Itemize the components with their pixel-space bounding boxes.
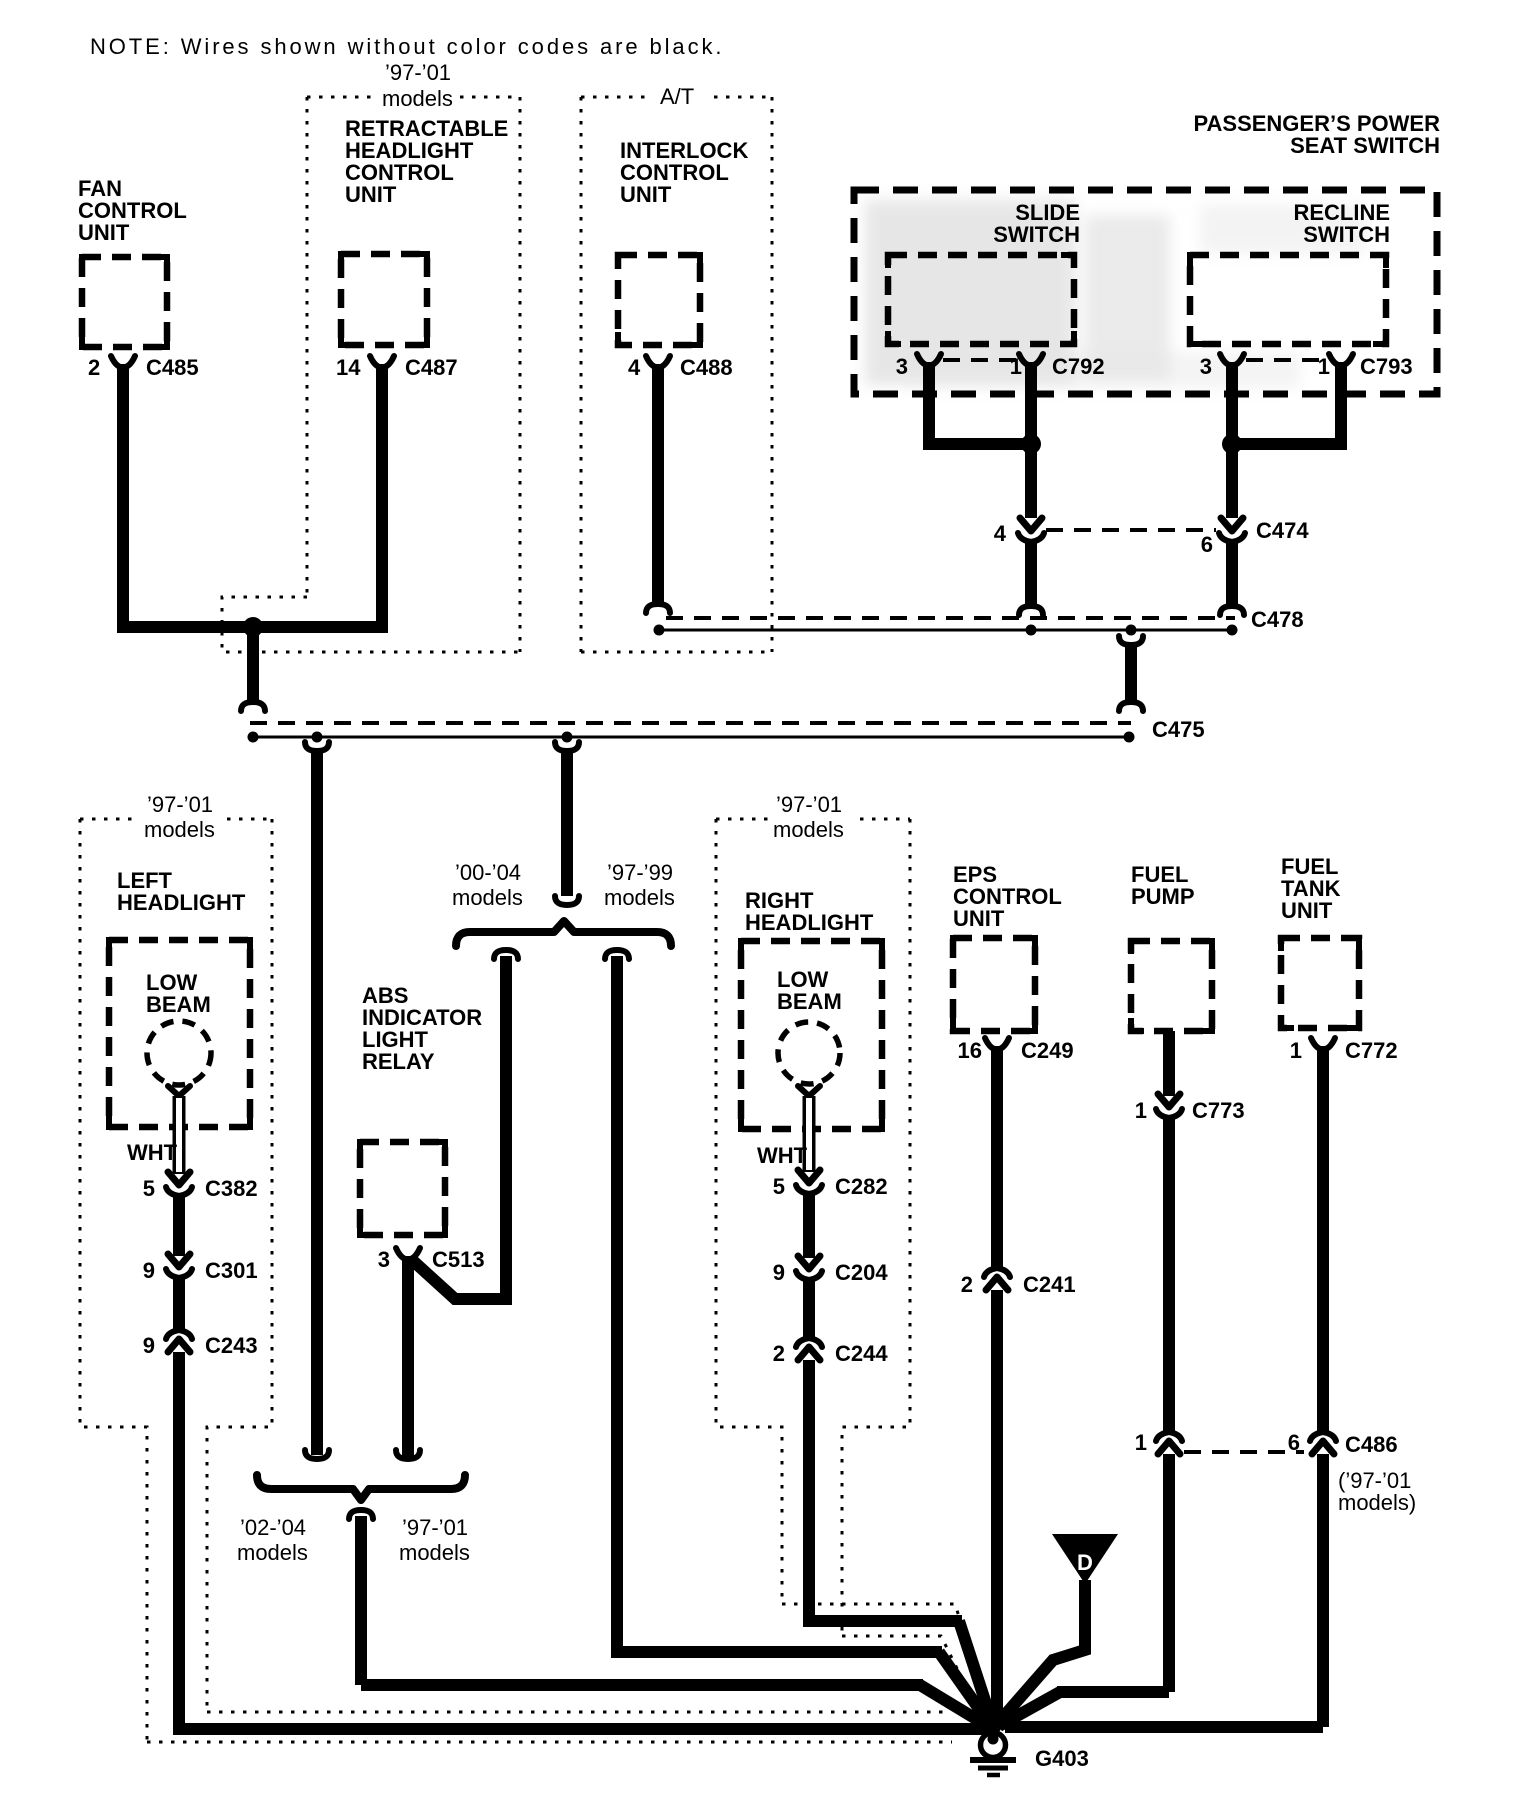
wire C475 tap B end <box>555 896 579 905</box>
svg-text:models: models <box>382 86 453 111</box>
svg-text:C773: C773 <box>1192 1098 1245 1123</box>
brace model merge (bottom) <box>257 1475 465 1500</box>
wire C475 tap A end <box>305 1450 329 1459</box>
svg-text:UNIT: UNIT <box>78 220 130 245</box>
svg-text:WHT: WHT <box>757 1143 808 1168</box>
connector C475 dashed line <box>250 721 1131 725</box>
svg-text:’97-’01: ’97-’01 <box>147 792 213 817</box>
svg-text:UNIT: UNIT <box>1281 898 1333 923</box>
fan control unit box <box>82 257 167 347</box>
node C478 left <box>654 625 665 636</box>
wire '97-'99 branch start <box>605 950 629 959</box>
svg-text:6: 6 <box>1288 1430 1300 1455</box>
wire C382 to C301 <box>173 1194 185 1256</box>
wire left headlight to ground <box>173 1352 990 1729</box>
dotted boundary left headlight upper <box>207 1711 950 1714</box>
svg-text:D: D <box>1077 1550 1093 1575</box>
dotted box A/T (interlock control unit) <box>581 97 772 652</box>
svg-text:C244: C244 <box>835 1341 888 1366</box>
svg-text:’00-’04: ’00-’04 <box>455 860 521 885</box>
wire ABS relay end <box>396 1450 420 1459</box>
svg-text:models: models <box>237 1540 308 1565</box>
svg-text:UNIT: UNIT <box>953 906 1005 931</box>
brace model split (top) <box>456 921 671 946</box>
connector C474 link <box>1046 528 1216 532</box>
EPS control unit box <box>953 938 1035 1031</box>
dotted box '97-'01 models (left headlight) <box>80 819 272 1742</box>
wire C475 tap B down <box>555 742 579 751</box>
wire C478 tap to C475 <box>1119 636 1143 645</box>
right low beam bulb <box>778 1022 840 1084</box>
retractable headlight control unit box <box>341 254 427 345</box>
wire fuel tank to C486 <box>1317 1046 1329 1434</box>
dotted boundary left headlight lower <box>147 1741 952 1744</box>
wire merged diagonal <box>920 1685 986 1725</box>
svg-text:’02-’04: ’02-’04 <box>240 1515 306 1540</box>
svg-text:9: 9 <box>143 1258 155 1283</box>
dotted box '97-'01 models (retractable headlight control unit) <box>222 97 520 652</box>
svg-text:C488: C488 <box>680 355 733 380</box>
node slide junction <box>1021 434 1041 454</box>
svg-text:C243: C243 <box>205 1333 258 1358</box>
svg-text:BEAM: BEAM <box>777 989 842 1014</box>
wire right headlight diagonal <box>959 1621 992 1722</box>
connector C793 link <box>1246 358 1326 362</box>
connector C478 bus line <box>659 629 1233 632</box>
node C478 slide <box>1026 625 1037 636</box>
svg-text:’97-’01: ’97-’01 <box>402 1515 468 1540</box>
wire merged to ground start <box>349 1510 373 1519</box>
svg-text:HEADLIGHT: HEADLIGHT <box>117 890 246 915</box>
off-page arrow D <box>1052 1534 1118 1584</box>
svg-text:C792: C792 <box>1052 354 1105 379</box>
svg-text:5: 5 <box>773 1174 785 1199</box>
wire C301 to C243 <box>173 1276 185 1330</box>
svg-text:2: 2 <box>961 1272 973 1297</box>
wire recline pin 3 <box>1226 362 1238 444</box>
svg-text:C475: C475 <box>1152 717 1205 742</box>
wire slide pin 1 <box>1025 362 1037 444</box>
wire fuel pump diagonal <box>999 1692 1060 1726</box>
dotted box '97-'01 models (right headlight) <box>716 819 910 1636</box>
svg-text:’97-’01: ’97-’01 <box>385 60 451 85</box>
node C475 tap B <box>562 732 573 743</box>
svg-text:6: 6 <box>1201 532 1213 557</box>
svg-text:C249: C249 <box>1021 1038 1074 1063</box>
svg-text:C513: C513 <box>432 1247 485 1272</box>
node C478 tap <box>1126 625 1137 636</box>
svg-text:14: 14 <box>336 355 361 380</box>
wire EPS to C241 <box>991 1046 1003 1270</box>
svg-text:1: 1 <box>1135 1098 1147 1123</box>
node recline junction <box>1222 434 1242 454</box>
svg-text:9: 9 <box>773 1260 785 1285</box>
scan-gray shading <box>865 200 1365 388</box>
wire slide C474 to C478 <box>1025 542 1037 604</box>
svg-text:16: 16 <box>958 1038 982 1063</box>
svg-text:3: 3 <box>896 354 908 379</box>
wire slide pin 3 <box>929 362 1026 444</box>
passenger's power seat switch box <box>854 190 1437 394</box>
wire right headlight to ground <box>803 1360 962 1621</box>
wire merged to ground <box>361 1516 923 1685</box>
svg-text:UNIT: UNIT <box>345 182 397 207</box>
wire retractable headlight to junction <box>376 364 388 633</box>
wire '00-'04 branch <box>411 956 506 1299</box>
wire fuel tank to ground <box>1005 1454 1323 1727</box>
svg-text:G403: G403 <box>1035 1746 1089 1771</box>
svg-text:SWITCH: SWITCH <box>993 222 1080 247</box>
svg-text:4: 4 <box>628 355 641 380</box>
svg-text:C478: C478 <box>1251 607 1304 632</box>
svg-text:NOTE: Wires shown without colo: NOTE: Wires shown without color codes ar… <box>90 34 724 59</box>
svg-text:C301: C301 <box>205 1258 258 1283</box>
wire recline C474 to C478 <box>1226 542 1238 604</box>
wire '97-'99 diagonal <box>939 1652 989 1723</box>
svg-text:3: 3 <box>378 1247 390 1272</box>
left low beam bulb <box>147 1021 211 1085</box>
connector C792 link <box>943 358 1018 362</box>
wire '97-'99 branch <box>611 956 942 1652</box>
svg-text:SWITCH: SWITCH <box>1303 222 1390 247</box>
svg-text:’97-’99: ’97-’99 <box>607 860 673 885</box>
svg-text:1: 1 <box>1135 1430 1147 1455</box>
wire right low beam WHT <box>803 1096 816 1172</box>
wire fan control to junction <box>123 364 385 627</box>
ground hub <box>984 1716 1002 1734</box>
svg-text:9: 9 <box>143 1333 155 1358</box>
svg-text:models: models <box>773 817 844 842</box>
svg-text:’97-’01: ’97-’01 <box>776 792 842 817</box>
svg-text:models: models <box>604 885 675 910</box>
svg-text:UNIT: UNIT <box>620 182 672 207</box>
fuel tank unit box <box>1281 938 1359 1028</box>
svg-text:WHT: WHT <box>127 1140 178 1165</box>
slide switch box <box>888 255 1074 344</box>
wire ABS relay down <box>402 1256 414 1458</box>
dotted boundary right headlight upper <box>782 1604 986 1702</box>
wire D to ground <box>997 1580 1085 1724</box>
ground G403 symbol <box>988 1725 998 1735</box>
fuel pump box <box>1131 941 1212 1031</box>
wire junction to C475 <box>247 627 259 700</box>
wire '00-'04 branch start <box>494 950 518 959</box>
svg-text:models): models) <box>1338 1490 1416 1515</box>
svg-text:4: 4 <box>994 521 1007 546</box>
svg-text:C241: C241 <box>1023 1272 1076 1297</box>
svg-text:C793: C793 <box>1360 354 1413 379</box>
node C475 tap A <box>312 732 323 743</box>
svg-text:5: 5 <box>143 1176 155 1201</box>
node C478 recline <box>1227 625 1238 636</box>
wire C282 to C204 <box>803 1192 815 1258</box>
svg-text:2: 2 <box>773 1341 785 1366</box>
node fan-retractable junction <box>243 617 263 637</box>
wire EPS to ground <box>991 1290 1003 1722</box>
wire fuel pump to ground <box>1057 1454 1169 1692</box>
recline switch box <box>1190 255 1386 344</box>
node C475 right <box>1124 732 1135 743</box>
left low beam box <box>109 940 250 1127</box>
svg-text:3: 3 <box>1200 354 1212 379</box>
svg-text:models: models <box>144 817 215 842</box>
svg-text:C474: C474 <box>1256 518 1309 543</box>
node C475 left <box>248 732 259 743</box>
svg-text:C486: C486 <box>1345 1432 1398 1457</box>
svg-text:models: models <box>452 885 523 910</box>
svg-text:A/T: A/T <box>660 84 694 109</box>
svg-text:SEAT SWITCH: SEAT SWITCH <box>1290 133 1440 158</box>
wire slide junction to C474 <box>1025 444 1037 518</box>
svg-text:models: models <box>399 1540 470 1565</box>
right low beam box <box>741 941 882 1129</box>
svg-text:C282: C282 <box>835 1174 888 1199</box>
wire left low beam WHT <box>173 1096 186 1174</box>
svg-text:2: 2 <box>88 355 100 380</box>
wire interlock control to C478 <box>652 364 664 602</box>
svg-text:C204: C204 <box>835 1260 888 1285</box>
wire C475 tap A down <box>305 742 329 751</box>
svg-text:PUMP: PUMP <box>1131 884 1195 909</box>
wire C773 to C486 <box>1163 1116 1175 1434</box>
connector C478 dashed line <box>666 616 1235 620</box>
svg-text:C772: C772 <box>1345 1038 1398 1063</box>
interlock control unit box <box>618 255 700 345</box>
dotted boundary right headlight lower <box>842 1636 979 1713</box>
svg-text:RELAY: RELAY <box>362 1049 435 1074</box>
connector C486 link <box>1184 1450 1304 1454</box>
svg-text:C485: C485 <box>146 355 199 380</box>
svg-text:C487: C487 <box>405 355 458 380</box>
svg-text:1: 1 <box>1290 1038 1302 1063</box>
wire recline pin 1 <box>1237 362 1341 444</box>
svg-text:BEAM: BEAM <box>146 992 211 1017</box>
ABS relay box <box>360 1142 445 1235</box>
wire fuel pump to C773 <box>1163 1031 1175 1096</box>
svg-text:C382: C382 <box>205 1176 258 1201</box>
connector C475 bus line <box>253 736 1129 739</box>
svg-text:HEADLIGHT: HEADLIGHT <box>745 910 874 935</box>
wire recline junction to C474 <box>1226 444 1238 518</box>
wire C204 to C244 <box>803 1278 815 1338</box>
